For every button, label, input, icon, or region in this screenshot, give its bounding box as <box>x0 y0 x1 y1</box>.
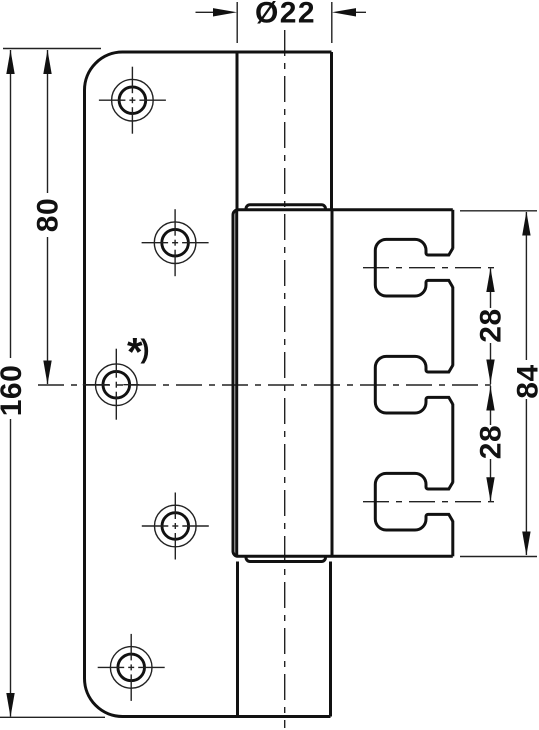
svg-text:84: 84 <box>512 364 539 398</box>
svg-text:): ) <box>141 334 150 364</box>
svg-text:Ø22: Ø22 <box>255 0 316 30</box>
svg-text:28: 28 <box>475 308 508 342</box>
svg-text:28: 28 <box>475 425 508 459</box>
svg-text:80: 80 <box>32 198 65 232</box>
svg-text:160: 160 <box>0 365 28 417</box>
